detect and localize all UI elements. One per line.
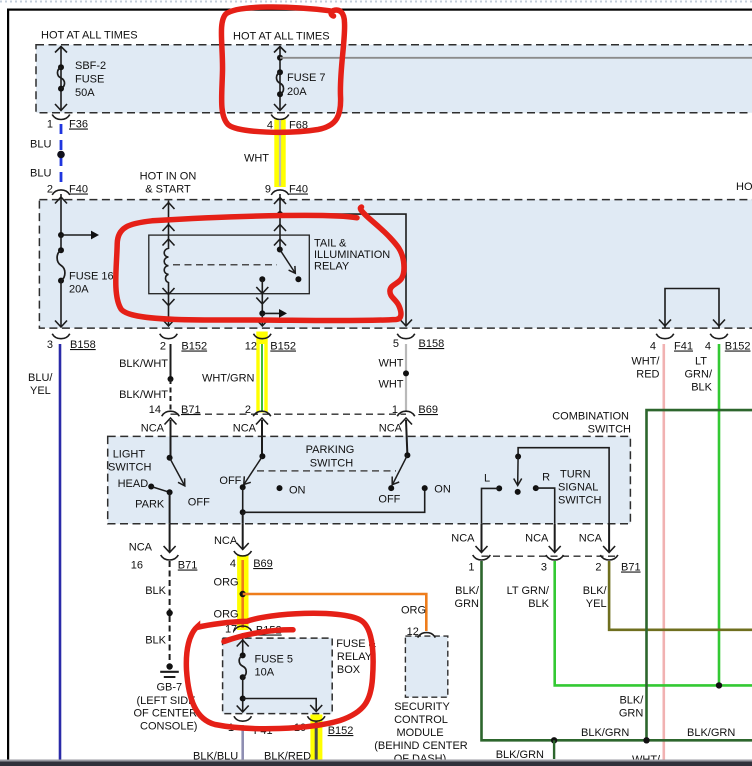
faint scan texture line at very top bbox=[0, 1, 752, 3]
wire FUSE7 feed vertical bbox=[274, 46, 286, 111]
svg-text:B158: B158 bbox=[70, 339, 96, 351]
wire WHT highlighted yellow bbox=[244, 120, 280, 186]
svg-text:B71: B71 bbox=[178, 560, 198, 572]
svg-text:WHT: WHT bbox=[378, 379, 403, 391]
svg-text:B69: B69 bbox=[418, 404, 438, 416]
relay switch arm bbox=[277, 247, 302, 283]
svg-text:PARKING: PARKING bbox=[306, 444, 355, 456]
security control module box (shaded) bbox=[405, 636, 447, 697]
node parking output junction bbox=[240, 484, 451, 524]
svg-text:FUSE: FUSE bbox=[75, 74, 104, 86]
svg-text:& START: & START bbox=[145, 184, 191, 196]
bottom window bar bbox=[0, 760, 752, 766]
svg-text:F40: F40 bbox=[289, 184, 308, 196]
svg-text:50A: 50A bbox=[75, 87, 95, 99]
fuse FUSE 7 bbox=[276, 69, 325, 98]
wire BLK/BLU bbox=[193, 725, 243, 763]
wire BLK/RED highlighted yellow bbox=[264, 722, 316, 763]
svg-text:WHT: WHT bbox=[378, 358, 403, 370]
svg-text:YEL: YEL bbox=[586, 598, 607, 610]
svg-text:SBF-2: SBF-2 bbox=[75, 60, 106, 72]
label WHT/ bottom bbox=[632, 754, 661, 766]
svg-text:2: 2 bbox=[47, 184, 53, 196]
svg-text:CONTROL: CONTROL bbox=[394, 714, 448, 726]
svg-text:B158: B158 bbox=[419, 338, 445, 350]
svg-text:LT: LT bbox=[695, 356, 707, 368]
svg-text:2: 2 bbox=[160, 341, 166, 353]
svg-text:HOT AT ALL TIMES: HOT AT ALL TIMES bbox=[736, 181, 752, 193]
svg-text:NCA: NCA bbox=[579, 533, 603, 545]
svg-text:B152: B152 bbox=[328, 725, 354, 737]
svg-text:SIGNAL: SIGNAL bbox=[558, 482, 598, 494]
svg-text:BLU/: BLU/ bbox=[28, 372, 53, 384]
wire LT GRN/BLK from pin3 bbox=[507, 561, 752, 685]
wire BLU/YEL vertical bbox=[28, 344, 60, 760]
svg-text:BLK: BLK bbox=[145, 585, 166, 597]
ground GB-7 bbox=[134, 663, 198, 732]
svg-text:1: 1 bbox=[47, 119, 53, 131]
label HOT AT ALL TIMES (right, clipped) bbox=[736, 181, 752, 193]
fuse FUSE 16 bbox=[57, 235, 114, 296]
svg-text:4: 4 bbox=[230, 558, 236, 570]
svg-text:B71: B71 bbox=[181, 404, 201, 416]
wire BLK/GRN from pin1 turn signal bbox=[455, 561, 752, 740]
wire branch to pin 5 bbox=[280, 214, 412, 326]
svg-text:BLK/WHT: BLK/WHT bbox=[119, 358, 168, 370]
fuse and relay box (shaded) bbox=[223, 638, 333, 714]
svg-text:WHT/GRN: WHT/GRN bbox=[202, 373, 255, 385]
svg-text:BLK/GRN: BLK/GRN bbox=[496, 749, 544, 761]
svg-text:5: 5 bbox=[393, 338, 399, 350]
svg-text:F41: F41 bbox=[674, 341, 693, 353]
connector pin 1 B69 bbox=[392, 404, 438, 455]
svg-text:MODULE: MODULE bbox=[396, 727, 443, 739]
connector pin 4 F68 bbox=[267, 115, 308, 132]
svg-text:GRN: GRN bbox=[619, 708, 644, 720]
label HOT AT ALL TIMES (middle) bbox=[233, 31, 330, 43]
connector pin 2 B71 (BLK/YEL) bbox=[595, 555, 640, 574]
svg-text:TURN: TURN bbox=[560, 469, 591, 481]
svg-text:ON: ON bbox=[289, 485, 306, 497]
label HOT AT ALL TIMES (left) bbox=[41, 30, 138, 42]
connector pin 3 (LT GRN/BLK) bbox=[541, 555, 564, 574]
wire SBF-2 feed vertical bbox=[55, 46, 67, 111]
ignition bus box (shaded) bbox=[39, 200, 752, 329]
svg-text:NCA: NCA bbox=[214, 535, 238, 547]
svg-text:RED: RED bbox=[636, 369, 659, 381]
combination switch box (shaded) bbox=[108, 436, 631, 523]
svg-text:NCA: NCA bbox=[129, 542, 153, 554]
svg-text:B152: B152 bbox=[725, 341, 751, 353]
node LT GRN junction right bbox=[716, 682, 722, 688]
svg-text:OFF: OFF bbox=[378, 494, 400, 506]
node ORG junction bbox=[240, 591, 246, 597]
parking switch right bbox=[378, 452, 410, 505]
svg-text:10A: 10A bbox=[255, 667, 275, 679]
svg-text:COMBINATION: COMBINATION bbox=[552, 411, 629, 423]
svg-text:GB-7: GB-7 bbox=[157, 682, 183, 694]
svg-text:FUSE 7: FUSE 7 bbox=[287, 72, 326, 84]
wire right feed legs in ignition box bbox=[659, 289, 725, 329]
svg-text:ORG: ORG bbox=[214, 609, 239, 621]
node fuse5 output junction bbox=[237, 677, 249, 712]
relay output contact bbox=[256, 276, 268, 313]
relay coil bbox=[164, 249, 168, 283]
svg-text:B69: B69 bbox=[253, 558, 273, 570]
svg-text:GRN: GRN bbox=[455, 598, 480, 610]
wire BLK/WHT bbox=[119, 344, 173, 410]
svg-text:YEL: YEL bbox=[30, 385, 51, 397]
svg-text:ORG: ORG bbox=[401, 605, 426, 617]
svg-text:ILLUMINATION: ILLUMINATION bbox=[314, 249, 390, 261]
svg-text:2: 2 bbox=[595, 562, 601, 574]
label SECURITY CONTROL MODULE bbox=[374, 701, 468, 765]
connector pin 12 security module bbox=[407, 626, 436, 638]
label PARKING SWITCH bbox=[306, 444, 355, 470]
wire WHT/RED pink vertical bbox=[631, 344, 663, 766]
parking switch left bbox=[219, 453, 305, 512]
svg-text:HOT AT ALL TIMES: HOT AT ALL TIMES bbox=[233, 31, 330, 43]
svg-text:SWITCH: SWITCH bbox=[558, 495, 601, 507]
connector pin 3 B158 bbox=[47, 334, 96, 351]
svg-text:LT GRN/: LT GRN/ bbox=[507, 585, 550, 597]
wire LT GRN/BLK green vertical right bbox=[685, 344, 720, 685]
wire relay switch feed bbox=[274, 214, 286, 249]
svg-text:HOT AT ALL TIMES: HOT AT ALL TIMES bbox=[41, 30, 138, 42]
svg-text:OFF: OFF bbox=[188, 497, 210, 509]
label NCA row upper bbox=[141, 423, 403, 435]
svg-text:RELAY: RELAY bbox=[337, 651, 373, 663]
page frame left border bbox=[7, 9, 9, 761]
connector pin 16 B71 bbox=[131, 524, 198, 572]
svg-text:BLK/GRN: BLK/GRN bbox=[687, 727, 735, 739]
wire pin2 into ignition box bbox=[55, 194, 67, 235]
svg-text:SWITCH: SWITCH bbox=[588, 424, 631, 436]
connector pin 1 F41 bbox=[228, 716, 273, 737]
node bus tap bbox=[277, 55, 283, 61]
wire WHT to pin 1 B69 bbox=[378, 344, 409, 411]
label BLK/GRN bottom pair bbox=[581, 727, 735, 739]
wire relay coil to pin 2 bbox=[163, 282, 175, 326]
connector pin 12 B152 bbox=[245, 334, 296, 353]
connector row B71/B69 dashed bbox=[171, 413, 407, 415]
wire gray bus to right edge bbox=[280, 57, 752, 59]
wire WHT/GRN highlighted yellow bbox=[202, 344, 262, 412]
svg-text:4: 4 bbox=[705, 341, 711, 353]
connector pin 2 (WHT/GRN) bbox=[245, 404, 271, 456]
label HOT IN ON &amp; START bbox=[140, 171, 197, 196]
connector row B71 lower dashed bbox=[482, 555, 619, 557]
wire pin9 into ignition box bbox=[274, 194, 286, 214]
svg-text:BLK: BLK bbox=[528, 598, 549, 610]
svg-text:12: 12 bbox=[407, 626, 419, 638]
svg-text:GRN/: GRN/ bbox=[685, 369, 713, 381]
svg-text:L: L bbox=[484, 473, 490, 485]
svg-text:ON: ON bbox=[434, 484, 451, 496]
svg-text:SWITCH: SWITCH bbox=[108, 462, 151, 474]
connector pin 5 B158 bbox=[393, 334, 444, 350]
svg-text:(LEFT SIDE: (LEFT SIDE bbox=[137, 695, 196, 707]
parking switch mech link dashed bbox=[257, 470, 396, 472]
svg-text:FUSE 16: FUSE 16 bbox=[69, 271, 114, 283]
wire branch to pin 10 bbox=[243, 699, 323, 712]
svg-text:F40: F40 bbox=[69, 184, 88, 196]
svg-text:9: 9 bbox=[265, 184, 271, 196]
connector pin 9 F40 bbox=[265, 184, 308, 196]
connector pin 1 F36 bbox=[47, 115, 88, 131]
svg-text:R: R bbox=[542, 472, 550, 484]
svg-text:NCA: NCA bbox=[379, 423, 403, 435]
connector pin 1 (BLK/GRN) bbox=[468, 555, 490, 574]
svg-text:BLK: BLK bbox=[691, 382, 712, 394]
relay box TAIL & ILLUMINATION RELAY bbox=[149, 235, 390, 294]
svg-text:BLK/: BLK/ bbox=[455, 585, 480, 597]
turn signal switch bbox=[482, 448, 610, 524]
svg-text:SWITCH: SWITCH bbox=[310, 458, 353, 470]
svg-text:1: 1 bbox=[468, 562, 474, 574]
wire ORG branch to security module bbox=[243, 594, 427, 631]
wire relay coil feed from HOT IN ON bus bbox=[163, 201, 175, 250]
svg-text:ORG: ORG bbox=[214, 577, 239, 589]
label FUSE & RELAY BOX bbox=[336, 638, 376, 676]
wire fuse16 to pin 3 bbox=[55, 281, 67, 327]
svg-text:NCA: NCA bbox=[141, 423, 165, 435]
svg-text:B71: B71 bbox=[621, 562, 641, 574]
wire BLK/GRN from right edge bbox=[619, 410, 752, 743]
wire BLK to ground bbox=[145, 561, 173, 663]
svg-text:16: 16 bbox=[131, 560, 143, 572]
svg-text:BOX: BOX bbox=[337, 664, 361, 676]
svg-text:20A: 20A bbox=[287, 86, 307, 98]
wire turn signal outputs to pins bbox=[476, 524, 616, 553]
svg-text:HEAD: HEAD bbox=[118, 478, 149, 490]
connector pin 17 B152 bbox=[225, 624, 282, 637]
svg-text:1: 1 bbox=[392, 404, 398, 416]
svg-text:OFF: OFF bbox=[219, 475, 241, 487]
svg-text:LIGHT: LIGHT bbox=[113, 449, 146, 461]
svg-text:12: 12 bbox=[245, 341, 257, 353]
svg-text:20A: 20A bbox=[69, 284, 89, 296]
fuse FUSE 5 bbox=[239, 652, 293, 680]
svg-text:CONSOLE): CONSOLE) bbox=[140, 721, 197, 733]
node junction with flow arrow bbox=[58, 231, 99, 240]
connector pin 2 F40 bbox=[47, 184, 88, 196]
svg-text:3: 3 bbox=[541, 562, 547, 574]
connector pin 4 B69 bbox=[230, 524, 273, 570]
svg-text:NCA: NCA bbox=[451, 533, 475, 545]
svg-text:FUSE 5: FUSE 5 bbox=[255, 654, 294, 666]
svg-text:OF CENTER: OF CENTER bbox=[134, 708, 198, 720]
svg-text:BLK/GRN: BLK/GRN bbox=[581, 727, 629, 739]
connector pin 10 B152 bbox=[294, 716, 354, 737]
connector pin 14 B71 bbox=[149, 404, 201, 458]
svg-text:NCA: NCA bbox=[525, 533, 549, 545]
label NCA row lower bbox=[129, 533, 603, 554]
svg-text:3: 3 bbox=[47, 339, 53, 351]
svg-text:B152: B152 bbox=[270, 341, 296, 353]
wire pin17 into fuse box bbox=[237, 633, 249, 655]
red annotation circle around FUSE 7 bbox=[221, 7, 344, 132]
svg-text:BLK/WHT: BLK/WHT bbox=[119, 389, 168, 401]
relay mech link dashed bbox=[173, 264, 277, 266]
svg-text:BLK/: BLK/ bbox=[583, 585, 608, 597]
node stub junction BLK/GRN bottom bbox=[496, 737, 558, 761]
light switch bbox=[108, 449, 210, 524]
svg-text:BLK/: BLK/ bbox=[619, 695, 644, 707]
wire BLK/YEL from pin2 bbox=[583, 561, 752, 630]
fuse SBF-2 bbox=[57, 60, 106, 99]
svg-text:PARK: PARK bbox=[135, 499, 165, 511]
red annotation loop around FUSE 5 bbox=[186, 613, 373, 728]
svg-text:2: 2 bbox=[245, 404, 251, 416]
svg-text:BLU: BLU bbox=[30, 139, 51, 151]
svg-text:WHT/: WHT/ bbox=[631, 356, 660, 368]
node relay output junction flow arrow bbox=[256, 309, 287, 326]
svg-text:TAIL &: TAIL & bbox=[314, 238, 347, 250]
svg-text:4: 4 bbox=[650, 341, 656, 353]
svg-text:WHT: WHT bbox=[244, 153, 269, 165]
wire BLU (dashed blue) bbox=[30, 124, 65, 186]
svg-text:BLK: BLK bbox=[145, 635, 166, 647]
hot bus box top (shaded) bbox=[36, 45, 752, 113]
connector pin 2 B152 bbox=[160, 334, 207, 353]
wire ORG highlighted yellow bbox=[214, 560, 243, 628]
svg-text:BLU: BLU bbox=[30, 168, 51, 180]
svg-text:14: 14 bbox=[149, 404, 161, 416]
node junction above relay bbox=[277, 211, 283, 217]
connector pin 4 F41 bbox=[650, 334, 693, 353]
svg-text:RELAY: RELAY bbox=[314, 261, 350, 273]
connector pin 4 B152 (right) bbox=[705, 334, 751, 353]
svg-text:B152: B152 bbox=[181, 341, 207, 353]
svg-text:SECURITY: SECURITY bbox=[394, 701, 450, 713]
svg-text:NCA: NCA bbox=[233, 423, 257, 435]
svg-text:(BEHIND CENTER: (BEHIND CENTER bbox=[374, 740, 468, 752]
label COMBINATION SWITCH bbox=[552, 411, 631, 436]
svg-text:HOT IN ON: HOT IN ON bbox=[140, 171, 197, 183]
red annotation loop around relay bbox=[116, 207, 404, 321]
svg-text:F36: F36 bbox=[69, 119, 88, 131]
highlighter bands (yellow) bbox=[237, 120, 322, 762]
page frame top border bbox=[7, 9, 752, 11]
